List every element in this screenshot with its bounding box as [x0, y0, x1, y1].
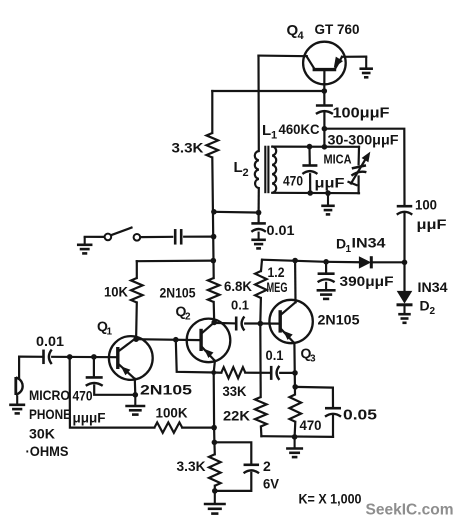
wire main rail 3.3K down to 6.8K — [212, 158, 213, 279]
transistor Q1 circle — [109, 336, 153, 380]
svg-text:MEG: MEG — [267, 280, 288, 295]
node tank bottom / 470 cap — [307, 190, 313, 196]
svg-text:0.01: 0.01 — [36, 334, 65, 349]
svg-text:0.1: 0.1 — [231, 298, 249, 313]
wire 22K bottom corner — [260, 427, 263, 437]
svg-text:0.05: 0.05 — [343, 408, 377, 424]
label 0.1 (interstage) — [231, 298, 249, 313]
wire mic node down to 100K — [70, 357, 155, 428]
ground at switch — [77, 237, 93, 254]
wire Q3 collector up to detector line — [294, 261, 297, 303]
node tank top / 470 cap — [307, 144, 313, 150]
wire 3.3K node to L2 node y=212 — [214, 211, 259, 214]
wire Q2 collector to 0.1 cap — [214, 322, 235, 325]
label 100uuF (top) — [333, 106, 390, 122]
svg-text:2: 2 — [430, 306, 436, 317]
wire top feed to right branch y=128.7 — [324, 129, 404, 206]
svg-text:22K: 22K — [223, 408, 250, 424]
node ground bus junction — [292, 434, 298, 440]
resistor 470 zigzag — [290, 394, 302, 421]
label 6V — [263, 476, 280, 492]
diode D2 cathode bar — [397, 303, 413, 306]
wire D1 to right branch — [371, 261, 404, 263]
wire 100K to emitter rail — [182, 427, 214, 429]
svg-text:2N105: 2N105 — [160, 285, 196, 301]
transistor Q2 emitter lead — [202, 347, 215, 361]
capacitor 0.1 (interstage) — [236, 317, 244, 331]
svg-text:IN34: IN34 — [418, 279, 448, 295]
capacitor 2uF 6V — [244, 465, 259, 473]
watermark SeekIC.com — [366, 502, 454, 519]
diode D1 1N34 triangle — [359, 256, 371, 268]
svg-text:100: 100 — [415, 197, 437, 213]
label 30-300uuF — [328, 132, 399, 148]
wire interstage down-right to Q2 emitter node — [176, 340, 214, 373]
wire mic corner down — [18, 357, 20, 379]
capacitor 470uuF (tank, mica) — [302, 166, 317, 174]
svg-text:3.3K: 3.3K — [177, 458, 206, 474]
svg-text:·OHMS: ·OHMS — [26, 443, 69, 459]
node bottom ground junction — [212, 488, 218, 494]
transistor Q2 emitter arrow (PNP) — [204, 349, 214, 358]
switch terminal 2 — [134, 234, 141, 241]
svg-text:4: 4 — [298, 30, 305, 42]
svg-text:SeekIC.com: SeekIC.com — [366, 502, 454, 519]
resistor 6.8K zigzag — [208, 278, 220, 302]
transformer core lines — [265, 146, 268, 194]
transistor Q1 base bar — [116, 347, 119, 369]
switch arm — [111, 228, 132, 236]
node 100K / emitter rail — [211, 425, 217, 431]
diode D1 cathode bar — [370, 256, 373, 268]
wire 3.3K bottom lead — [214, 486, 216, 491]
label 3.3K (bottom) — [177, 458, 206, 474]
node tank top / feed — [322, 144, 328, 150]
svg-text:μμμF: μμμF — [73, 410, 106, 426]
wire bias line y=91 from 3.3K to Q4 base — [212, 90, 324, 92]
transistor Q2 base bar — [199, 329, 202, 351]
wire 0.05 bottom lead — [332, 416, 334, 437]
label 470 (emitter) — [300, 417, 322, 433]
node 2uF branch junction — [212, 440, 218, 446]
ground below 470/0.05 — [286, 437, 303, 457]
transistor Q3 collector lead — [281, 302, 296, 315]
label 470 (tank) — [283, 174, 303, 189]
svg-text:2: 2 — [185, 312, 191, 323]
capacitor 0.01 (osc) top lead — [258, 213, 260, 224]
inductor L1 winding — [272, 146, 276, 193]
node Q3 emitter / 0.05 junction — [292, 384, 298, 390]
wire Q4 base node down to 100pF cap — [323, 91, 325, 105]
svg-text:470: 470 — [73, 389, 93, 404]
switch terminal 1 — [105, 234, 112, 241]
node Q1 collector / 10K junction — [133, 336, 139, 342]
label L2 — [234, 159, 249, 179]
svg-text:L: L — [262, 122, 271, 139]
label 22K — [223, 408, 250, 424]
transistor Q4 emitter arrow (PNP) — [334, 57, 343, 68]
transistor Q2 circle — [187, 319, 231, 363]
label 0.1 (Q3) — [266, 347, 284, 363]
label IN34 (D1) — [352, 235, 386, 251]
capacitor 0.01 (osc) — [251, 223, 266, 231]
label Q1 — [97, 318, 113, 338]
wire L2 bottom down to 0.01 node — [258, 188, 260, 213]
svg-text:30-300μμF: 30-300μμF — [328, 132, 399, 148]
wire 2uF branch — [214, 442, 251, 464]
label MEG — [267, 280, 288, 295]
capacitor 390uuF — [318, 274, 335, 282]
label 3.3K (top) — [172, 140, 204, 156]
svg-text:GT 760: GT 760 — [315, 21, 360, 37]
label MICRO — [29, 387, 70, 403]
wire 0.01 to Q1 base — [52, 356, 116, 359]
resistor 22K zigzag — [255, 397, 267, 427]
capacitor 0.1 (Q3 emitter) — [271, 366, 279, 380]
ground below Q1 — [125, 395, 145, 415]
transistor Q4 (GT760) circle — [303, 42, 346, 85]
wire Q4 collector to left rail — [259, 54, 307, 57]
resistor 33K zigzag — [221, 367, 245, 378]
wire 33K to 0.1 cap — [245, 372, 270, 374]
node Q3 base / 1.2MEG / 22K junction — [258, 321, 264, 327]
capacitor 470uuF top lead — [308, 147, 310, 166]
wire node to Q3 base — [260, 322, 279, 324]
svg-text:1: 1 — [107, 327, 113, 338]
wire 2uF bottom lead — [215, 473, 252, 491]
wire 0.1 to Q3 emitter — [280, 372, 295, 374]
node mic line / 100K branch — [67, 354, 73, 360]
svg-text:MICA: MICA — [324, 152, 353, 167]
ground at tank bottom — [321, 193, 335, 214]
ground below 390uuF — [317, 282, 336, 299]
ground at Q4 emitter — [359, 57, 373, 78]
transistor Q4 emitter lead (right) — [335, 57, 342, 69]
svg-text:1.2: 1.2 — [268, 265, 285, 280]
transistor Q2 collector lead — [202, 322, 215, 333]
wire Q1 emitter down — [134, 379, 137, 395]
resistor 10K lead — [136, 261, 138, 278]
node Q1 emitter junction — [133, 392, 139, 398]
wire 1.2MEG top corner — [261, 260, 262, 271]
wire Q4 emitter to ground — [342, 55, 366, 57]
wire 0.05 branch — [295, 387, 333, 408]
label 2N105 (Q1) — [140, 382, 192, 398]
svg-text:3: 3 — [310, 354, 316, 365]
label 33K — [223, 383, 247, 399]
resistor 1.2MEG zigzag — [255, 271, 267, 298]
wire Q2 emitter down to junction — [214, 361, 215, 373]
label 470 (mic) — [73, 389, 93, 404]
node D1 / D2 / 100uuF junction — [402, 260, 408, 266]
capacitor 0.01 (mic) — [44, 350, 52, 365]
label OHMS — [26, 443, 69, 459]
wire mic to 0.01 — [19, 356, 43, 358]
transistor Q1 emitter arrow (PNP) — [121, 366, 131, 375]
resistor 3.3K (top) lead — [211, 91, 213, 133]
node main rail / y261 wire — [211, 258, 217, 264]
node tank bottom / ground — [325, 190, 331, 196]
svg-text:2: 2 — [263, 458, 271, 474]
node Q2 emitter junction — [211, 370, 216, 375]
svg-text:100K: 100K — [156, 406, 188, 421]
wire y=261 from 10K to main rail — [137, 260, 214, 263]
resistor 10K zigzag — [131, 278, 143, 303]
svg-text:2: 2 — [243, 167, 249, 179]
wire 470 bottom lead — [294, 422, 297, 437]
label 1.2 — [268, 265, 285, 280]
label 0.01 (osc) — [267, 223, 296, 238]
wire switch to cap — [140, 236, 172, 239]
wire left rail down to L2 top — [257, 56, 259, 151]
label GT760 — [315, 21, 360, 37]
diode D2 1N34 triangle — [397, 291, 413, 304]
label uuF (right) — [417, 216, 448, 232]
variable capacitor arrow — [348, 152, 371, 186]
svg-text:μμF: μμF — [315, 175, 346, 191]
wire tank bottom — [272, 192, 359, 195]
label K = X 1,000 — [299, 492, 362, 507]
wire Q2 emitter rail down — [214, 373, 215, 455]
label IN34 (D2) — [418, 279, 448, 295]
node Q3 collector top — [292, 258, 298, 264]
svg-text:2N105: 2N105 — [140, 382, 192, 398]
wire cap to main rail — [184, 236, 213, 238]
wire Q1 collector node to Q2 base — [136, 338, 199, 341]
wire 100uuF to tank node — [323, 113, 325, 147]
node Q3 emitter / 0.1 junction — [292, 370, 298, 376]
transistor Q1 emitter lead — [118, 364, 135, 379]
label uuF (tank) — [315, 175, 346, 191]
svg-text:2N105: 2N105 — [318, 312, 360, 328]
node switch line / main rail — [211, 234, 217, 240]
svg-text:33K: 33K — [223, 383, 247, 399]
label Q4 — [287, 22, 305, 42]
svg-text:3.3K: 3.3K — [172, 140, 204, 156]
transistor Q4 base lead down — [323, 71, 325, 92]
transistor Q3 base bar — [279, 310, 282, 332]
capacitor 470uuF bottom lead — [309, 174, 311, 193]
variable capacitor bottom lead — [358, 177, 360, 194]
label D1 — [336, 236, 352, 256]
label 390uuF — [340, 273, 394, 289]
wire detector line 1.2MEG to D1 — [262, 260, 359, 263]
node interstage junction — [173, 337, 179, 343]
wire 6.8K bottom to Q2 collector — [213, 302, 216, 322]
label 2N105 (Q3) — [318, 312, 360, 328]
resistor 3.3K (top) zigzag — [207, 133, 219, 158]
capacitor 0.05 — [325, 408, 341, 416]
label 100K — [156, 406, 188, 421]
wire 0.1 to Q3 base node — [245, 322, 260, 324]
wire bottom ground bus — [261, 435, 333, 438]
svg-text:PHONE: PHONE — [29, 406, 71, 422]
label 10K — [104, 284, 128, 300]
svg-text:IN34: IN34 — [352, 235, 386, 251]
svg-text:D: D — [420, 298, 430, 314]
wire 100uuF right down to D1 node — [403, 213, 405, 262]
variable capacitor plates — [351, 165, 366, 175]
svg-text:30K: 30K — [29, 426, 55, 442]
label 100 (right) — [415, 197, 437, 213]
node 390uuF junction — [323, 259, 329, 265]
transistor Q4 collector lead (left) — [307, 56, 315, 68]
label Q2 — [176, 303, 192, 323]
ground below microphone — [9, 395, 25, 413]
label D2 — [420, 298, 436, 318]
wire 470uuF top lead — [93, 357, 95, 377]
wire 33K lead left — [214, 371, 222, 373]
svg-text:6.8K: 6.8K — [224, 278, 252, 294]
capacitor 390uuF lead — [325, 262, 327, 274]
resistor 100K zigzag — [154, 422, 182, 432]
svg-text:1: 1 — [271, 130, 277, 142]
capacitor 100uuF (top) — [316, 106, 333, 114]
transistor Q3 emitter arrow (PNP) — [283, 331, 293, 340]
node junction below 100uuF — [322, 126, 328, 132]
wire 1.2MEG bottom to Q3 base node — [259, 298, 262, 324]
wire D2 top lead — [403, 262, 405, 291]
label PHONE — [29, 406, 71, 422]
ground at bottom left — [204, 491, 226, 514]
capacitor 100uuF (right) — [397, 206, 413, 214]
label 0.05 — [343, 408, 377, 424]
wire 10K bottom to Q1 collector node — [135, 303, 138, 340]
svg-text:10K: 10K — [104, 284, 128, 300]
wire switch left — [85, 236, 105, 238]
svg-text:100μμF: 100μμF — [333, 106, 390, 122]
wire 1.2MEG node down to 22K — [259, 324, 262, 398]
wire 470uuF bottom lead — [94, 386, 135, 395]
label 2 (2uF) — [263, 458, 271, 474]
label 6.8K — [224, 278, 252, 294]
svg-text:470: 470 — [283, 174, 303, 189]
svg-text:K= X 1,000: K= X 1,000 — [299, 492, 362, 507]
node 3.3K bottom junction — [211, 209, 217, 215]
resistor 3.3K (bottom) zigzag — [209, 454, 221, 485]
label MICA — [324, 152, 353, 167]
inductor L2 winding — [255, 151, 259, 188]
label 30K — [29, 426, 55, 442]
label L1 460KC — [262, 121, 320, 142]
node junction Q4 base / bias line — [322, 88, 328, 94]
capacitor (switch, key click filter) — [175, 229, 181, 245]
svg-text:390μμF: 390μμF — [340, 273, 394, 289]
microphone symbol — [16, 377, 23, 395]
node mic line / 470uuF branch — [91, 354, 97, 360]
capacitor 470uuF (mic) — [86, 377, 103, 385]
svg-text:460KC: 460KC — [279, 121, 320, 137]
wire tank top — [272, 146, 359, 148]
node Q2 collector / 6.8K / 0.1 junction — [211, 320, 217, 326]
ground below D2 — [398, 305, 411, 323]
svg-text:6V: 6V — [263, 476, 280, 492]
node L2 / 0.01 junction — [256, 210, 262, 216]
ground below 0.01 — [251, 232, 266, 249]
label 2N105 (Q2) — [160, 285, 196, 301]
transistor Q1 collector lead — [118, 338, 135, 351]
label uuF (mic) — [73, 410, 106, 426]
label Q3 — [301, 345, 317, 365]
svg-text:MICRO: MICRO — [29, 387, 70, 403]
transistor Q4 base bar — [313, 68, 337, 71]
svg-text:470: 470 — [300, 417, 322, 433]
svg-text:0.1: 0.1 — [266, 347, 284, 363]
label 0.01 (mic) — [36, 334, 65, 349]
transistor Q3 emitter lead — [281, 329, 295, 344]
variable capacitor right edge top lead — [358, 147, 361, 165]
wire Q3 emitter down — [293, 343, 296, 394]
svg-text:L: L — [234, 159, 243, 176]
svg-text:μμF: μμF — [417, 216, 448, 232]
transistor Q3 circle — [269, 300, 312, 343]
svg-text:0.01: 0.01 — [267, 223, 296, 238]
